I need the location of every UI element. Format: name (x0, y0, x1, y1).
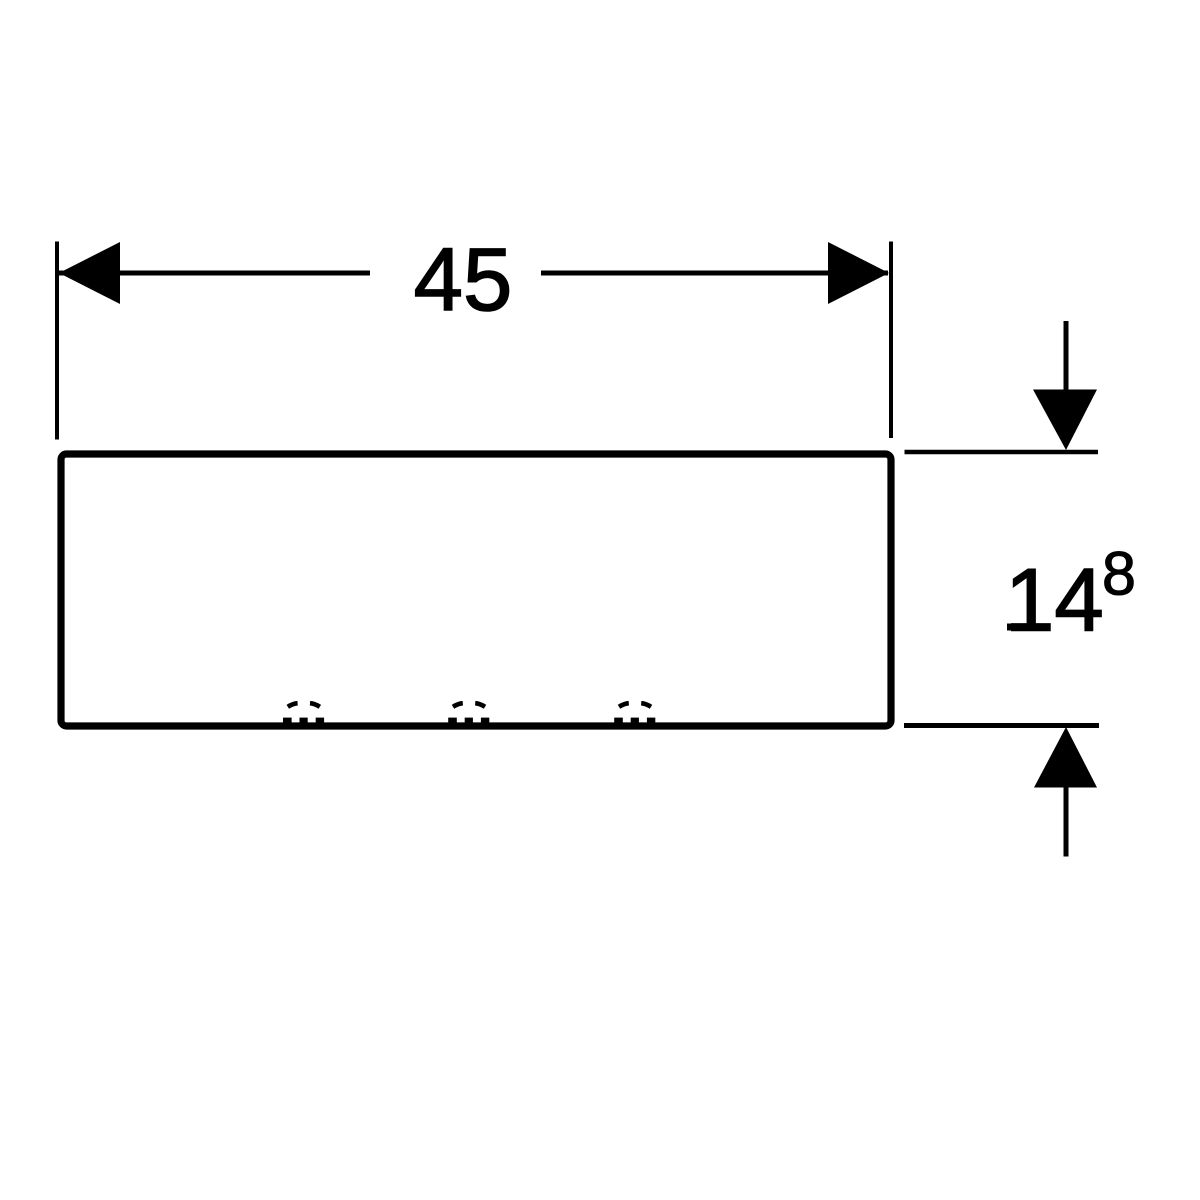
svg-text:8: 8 (1102, 540, 1136, 608)
svg-text:14: 14 (1005, 551, 1104, 650)
svg-text:45: 45 (414, 230, 513, 329)
